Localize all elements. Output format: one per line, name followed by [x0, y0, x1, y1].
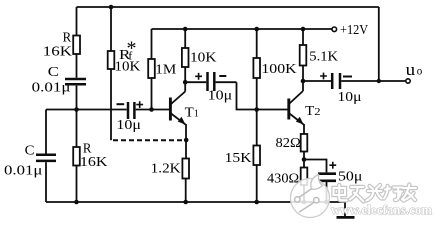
svg-text:10K: 10K [190, 50, 216, 65]
svg-text:10μ: 10μ [116, 118, 140, 133]
node dot 1M bottom [149, 107, 154, 112]
wire cap2 corner down to T2 base [237, 82, 288, 109]
resistor 1.2K [182, 159, 189, 179]
capacitor 10u output plates [332, 73, 340, 89]
wire C1 to input node [76, 86, 78, 110]
wire feedback right drop to output node [378, 7, 380, 81]
transistor T2 collector [289, 91, 303, 104]
wire cap2 tap from T1 collector [185, 81, 236, 83]
wire T2 emitter down [303, 124, 305, 134]
wire 1M branch from rail [151, 29, 153, 59]
svg-text:u: u [406, 60, 416, 79]
watermark chinese glyphs (outlined) [334, 185, 417, 202]
watermark logo nodes and links [299, 189, 314, 213]
resistor 100K [253, 58, 260, 78]
wire left C to ground rail [45, 162, 47, 202]
node dot emitter dashed [184, 138, 189, 143]
wire R1 to C1 [76, 54, 78, 78]
transistor T2 emitter [289, 114, 304, 125]
svg-text:15K: 15K [225, 151, 252, 166]
node dot ground 15K [254, 200, 259, 205]
polarity plus cap1 [136, 101, 143, 108]
wire input line [46, 109, 169, 111]
wire 5.1K branch from rail [302, 29, 304, 45]
capacitor 50u plates [318, 174, 336, 181]
svg-text:0.01μ: 0.01μ [4, 163, 42, 178]
resistor 15K [253, 146, 260, 166]
svg-text:C: C [48, 65, 59, 80]
capacitor C 0.01u (top left) [65, 79, 86, 84]
wire R1 branch top [76, 7, 78, 36]
svg-text:*: * [127, 38, 137, 60]
polarity plus cap3 [320, 73, 327, 80]
node dot T2 collector tap [301, 79, 306, 84]
svg-text:10μ: 10μ [208, 88, 233, 103]
watermark logo circle [291, 179, 330, 218]
wire 82ohm to junction [303, 152, 305, 168]
svg-text:2: 2 [314, 107, 320, 118]
svg-text:R: R [63, 30, 72, 45]
resistor Rf* 10K [108, 51, 115, 69]
svg-text:16K: 16K [43, 44, 72, 59]
transistor T1 emitter [171, 114, 186, 125]
node dot 5.1K rail [301, 27, 306, 32]
ground symbol [344, 202, 346, 217]
polarity plus 50u [329, 162, 336, 169]
watermark elecfans [291, 175, 433, 218]
wire T1 emitter down [185, 124, 187, 159]
transistor T1 emitter arrow [178, 117, 186, 125]
wire +12V rail [152, 28, 332, 30]
wire ground rail bottom [46, 201, 345, 203]
capacitor 10u input coupling plates [128, 102, 134, 119]
node dot output feedback [377, 79, 381, 83]
polarity minus cap3 [343, 76, 352, 78]
node dot ground R2 [74, 200, 79, 205]
transistor T2 base bar [287, 99, 290, 120]
resistor 10K (T1 collector load) [182, 48, 189, 67]
resistor 430ohm [301, 168, 308, 186]
resistor 82ohm [301, 134, 308, 152]
resistor 5.1K [300, 45, 307, 66]
svg-text:430Ω: 430Ω [267, 171, 299, 186]
wire 430ohm to ground rail [303, 185, 305, 202]
svg-text:www.elecfans.com: www.elecfans.com [331, 203, 433, 217]
wire 15K to ground rail [256, 165, 258, 202]
node dot 82/430 junction [302, 157, 307, 162]
node dot cap2 tap [183, 80, 188, 85]
svg-text:o: o [417, 65, 423, 77]
node dot T2 base bias [254, 107, 259, 112]
node dot 100K rail [254, 27, 259, 32]
wire 10K branch from rail [184, 29, 186, 48]
svg-text:+12V: +12V [340, 23, 368, 38]
wire 100K to T2 base node [256, 78, 258, 110]
wire R2 to ground rail [76, 166, 78, 203]
capacitor C 0.01u (left) [36, 155, 56, 161]
svg-text:10μ: 10μ [338, 90, 362, 105]
node dot Rf top [109, 5, 114, 10]
node dot ground 1.2K [183, 200, 188, 205]
wire 15K branch [256, 110, 258, 146]
wire 1M to input wire [151, 78, 153, 110]
wire 5.1K to T2 collector [302, 66, 304, 92]
wire Rf branch top [110, 7, 112, 51]
wire output line [303, 80, 406, 82]
transistor T1 base bar [169, 98, 172, 121]
resistor R 16K (lower left) [73, 147, 80, 166]
wire 50u to ground rail [326, 182, 328, 202]
node dot 10K rail [183, 27, 188, 32]
polarity plus cap2 [195, 73, 202, 80]
wire input left drop [45, 110, 47, 154]
svg-text:5.1K: 5.1K [309, 49, 338, 64]
resistor 1M [148, 59, 155, 78]
svg-text:100K: 100K [261, 62, 296, 77]
node dot input R/C [74, 107, 79, 112]
polarity minus cap1 [117, 103, 125, 105]
wire 10K to T1 collector [184, 67, 186, 92]
transistor T1 collector [171, 92, 185, 105]
wire Rf branch down (crosses input wire) [110, 69, 112, 140]
node +12V terminal [332, 27, 337, 32]
wire dashed feedback to T1 emitter [113, 139, 186, 141]
wire 50u tap [304, 160, 327, 173]
node dot ground 430 [302, 200, 307, 205]
watermark logo leaf [311, 175, 323, 190]
wire R2 branch [76, 110, 78, 148]
wire feedback top rail from output back to input network [77, 6, 379, 8]
polarity minus cap2 [219, 75, 226, 77]
svg-text:1M: 1M [155, 62, 177, 77]
svg-text:1: 1 [194, 109, 199, 120]
svg-text:50μ: 50μ [338, 169, 362, 184]
wire 100K branch from rail [256, 29, 258, 58]
node dot ground 50u [324, 200, 329, 205]
svg-text:C: C [25, 144, 35, 159]
transistor T2 emitter arrow [296, 117, 304, 125]
capacitor 10u interstage plates [208, 72, 215, 91]
svg-text:10K: 10K [115, 60, 141, 75]
wire 1.2K to ground rail [185, 179, 187, 203]
node uo terminal [406, 79, 410, 83]
svg-text:0.01μ: 0.01μ [32, 80, 71, 95]
svg-text:82Ω: 82Ω [276, 136, 301, 151]
resistor R 16K (top left) [73, 36, 80, 55]
svg-text:1.2K: 1.2K [151, 161, 181, 176]
svg-text:16K: 16K [80, 155, 108, 170]
